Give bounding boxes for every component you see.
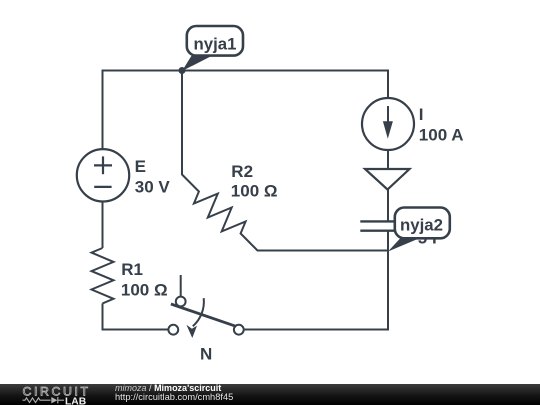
wire I to triangle xyxy=(387,150,389,169)
switch toggle arrow head xyxy=(186,325,197,338)
wire switch stub xyxy=(180,275,182,296)
footer bar xyxy=(0,384,540,405)
callout nyja2 tail xyxy=(388,238,420,252)
credit text xyxy=(115,383,221,393)
resistor R1 xyxy=(92,248,114,303)
logo resistor zigzag + diode xyxy=(23,397,65,403)
wire right top vertical xyxy=(387,70,389,99)
wire node nyja1 down to R2 xyxy=(181,71,183,176)
svg-text:30 V: 30 V xyxy=(135,177,171,196)
CircuitLab logo xyxy=(0,384,100,405)
triangle symbol below I xyxy=(365,169,410,190)
capacitor C1 plates xyxy=(360,220,415,222)
svg-text:I: I xyxy=(419,105,424,124)
callout nyja1 tail xyxy=(182,56,212,71)
switch terminal circle left xyxy=(168,325,178,335)
switch terminal circle right xyxy=(234,325,244,335)
svg-text:LAB: LAB xyxy=(65,396,86,405)
wire triangle to capacitor xyxy=(387,190,389,222)
callout nyja2 box xyxy=(395,208,450,239)
wire top horizontal xyxy=(103,70,389,72)
svg-text:R1: R1 xyxy=(121,260,143,279)
junction node nyja1 dot xyxy=(179,67,186,74)
svg-text:nyja1: nyja1 xyxy=(194,34,237,53)
callout nyja1 box xyxy=(187,26,243,56)
wire capacitor to bottom xyxy=(387,231,389,331)
svg-text:E: E xyxy=(135,157,146,176)
current source I circle xyxy=(362,98,414,150)
switch terminal circle top throw xyxy=(176,297,186,307)
wire bottom left xyxy=(102,329,169,331)
svg-text:100 Ω: 100 Ω xyxy=(231,182,278,201)
voltage source minus sign xyxy=(94,186,111,188)
svg-text:100 Ω: 100 Ω xyxy=(121,281,168,300)
wire mid horizontal R2 to right column xyxy=(257,250,388,252)
wire R1 to bottom xyxy=(102,303,104,330)
resistor R2 xyxy=(182,175,258,251)
wire left top vertical xyxy=(102,70,104,150)
wire E to R1 xyxy=(102,202,104,249)
switch toggle arrow arc xyxy=(193,298,204,326)
voltage source E circle xyxy=(77,149,129,201)
svg-text:N: N xyxy=(200,345,212,364)
current source arrow xyxy=(383,106,393,139)
svg-text:nyja2: nyja2 xyxy=(400,215,443,234)
voltage source plus sign xyxy=(94,164,112,166)
switch SW lever xyxy=(171,304,236,326)
wire bottom right of switch xyxy=(244,329,389,331)
svg-text:100 A: 100 A xyxy=(419,125,464,144)
svg-text:R2: R2 xyxy=(231,162,253,181)
